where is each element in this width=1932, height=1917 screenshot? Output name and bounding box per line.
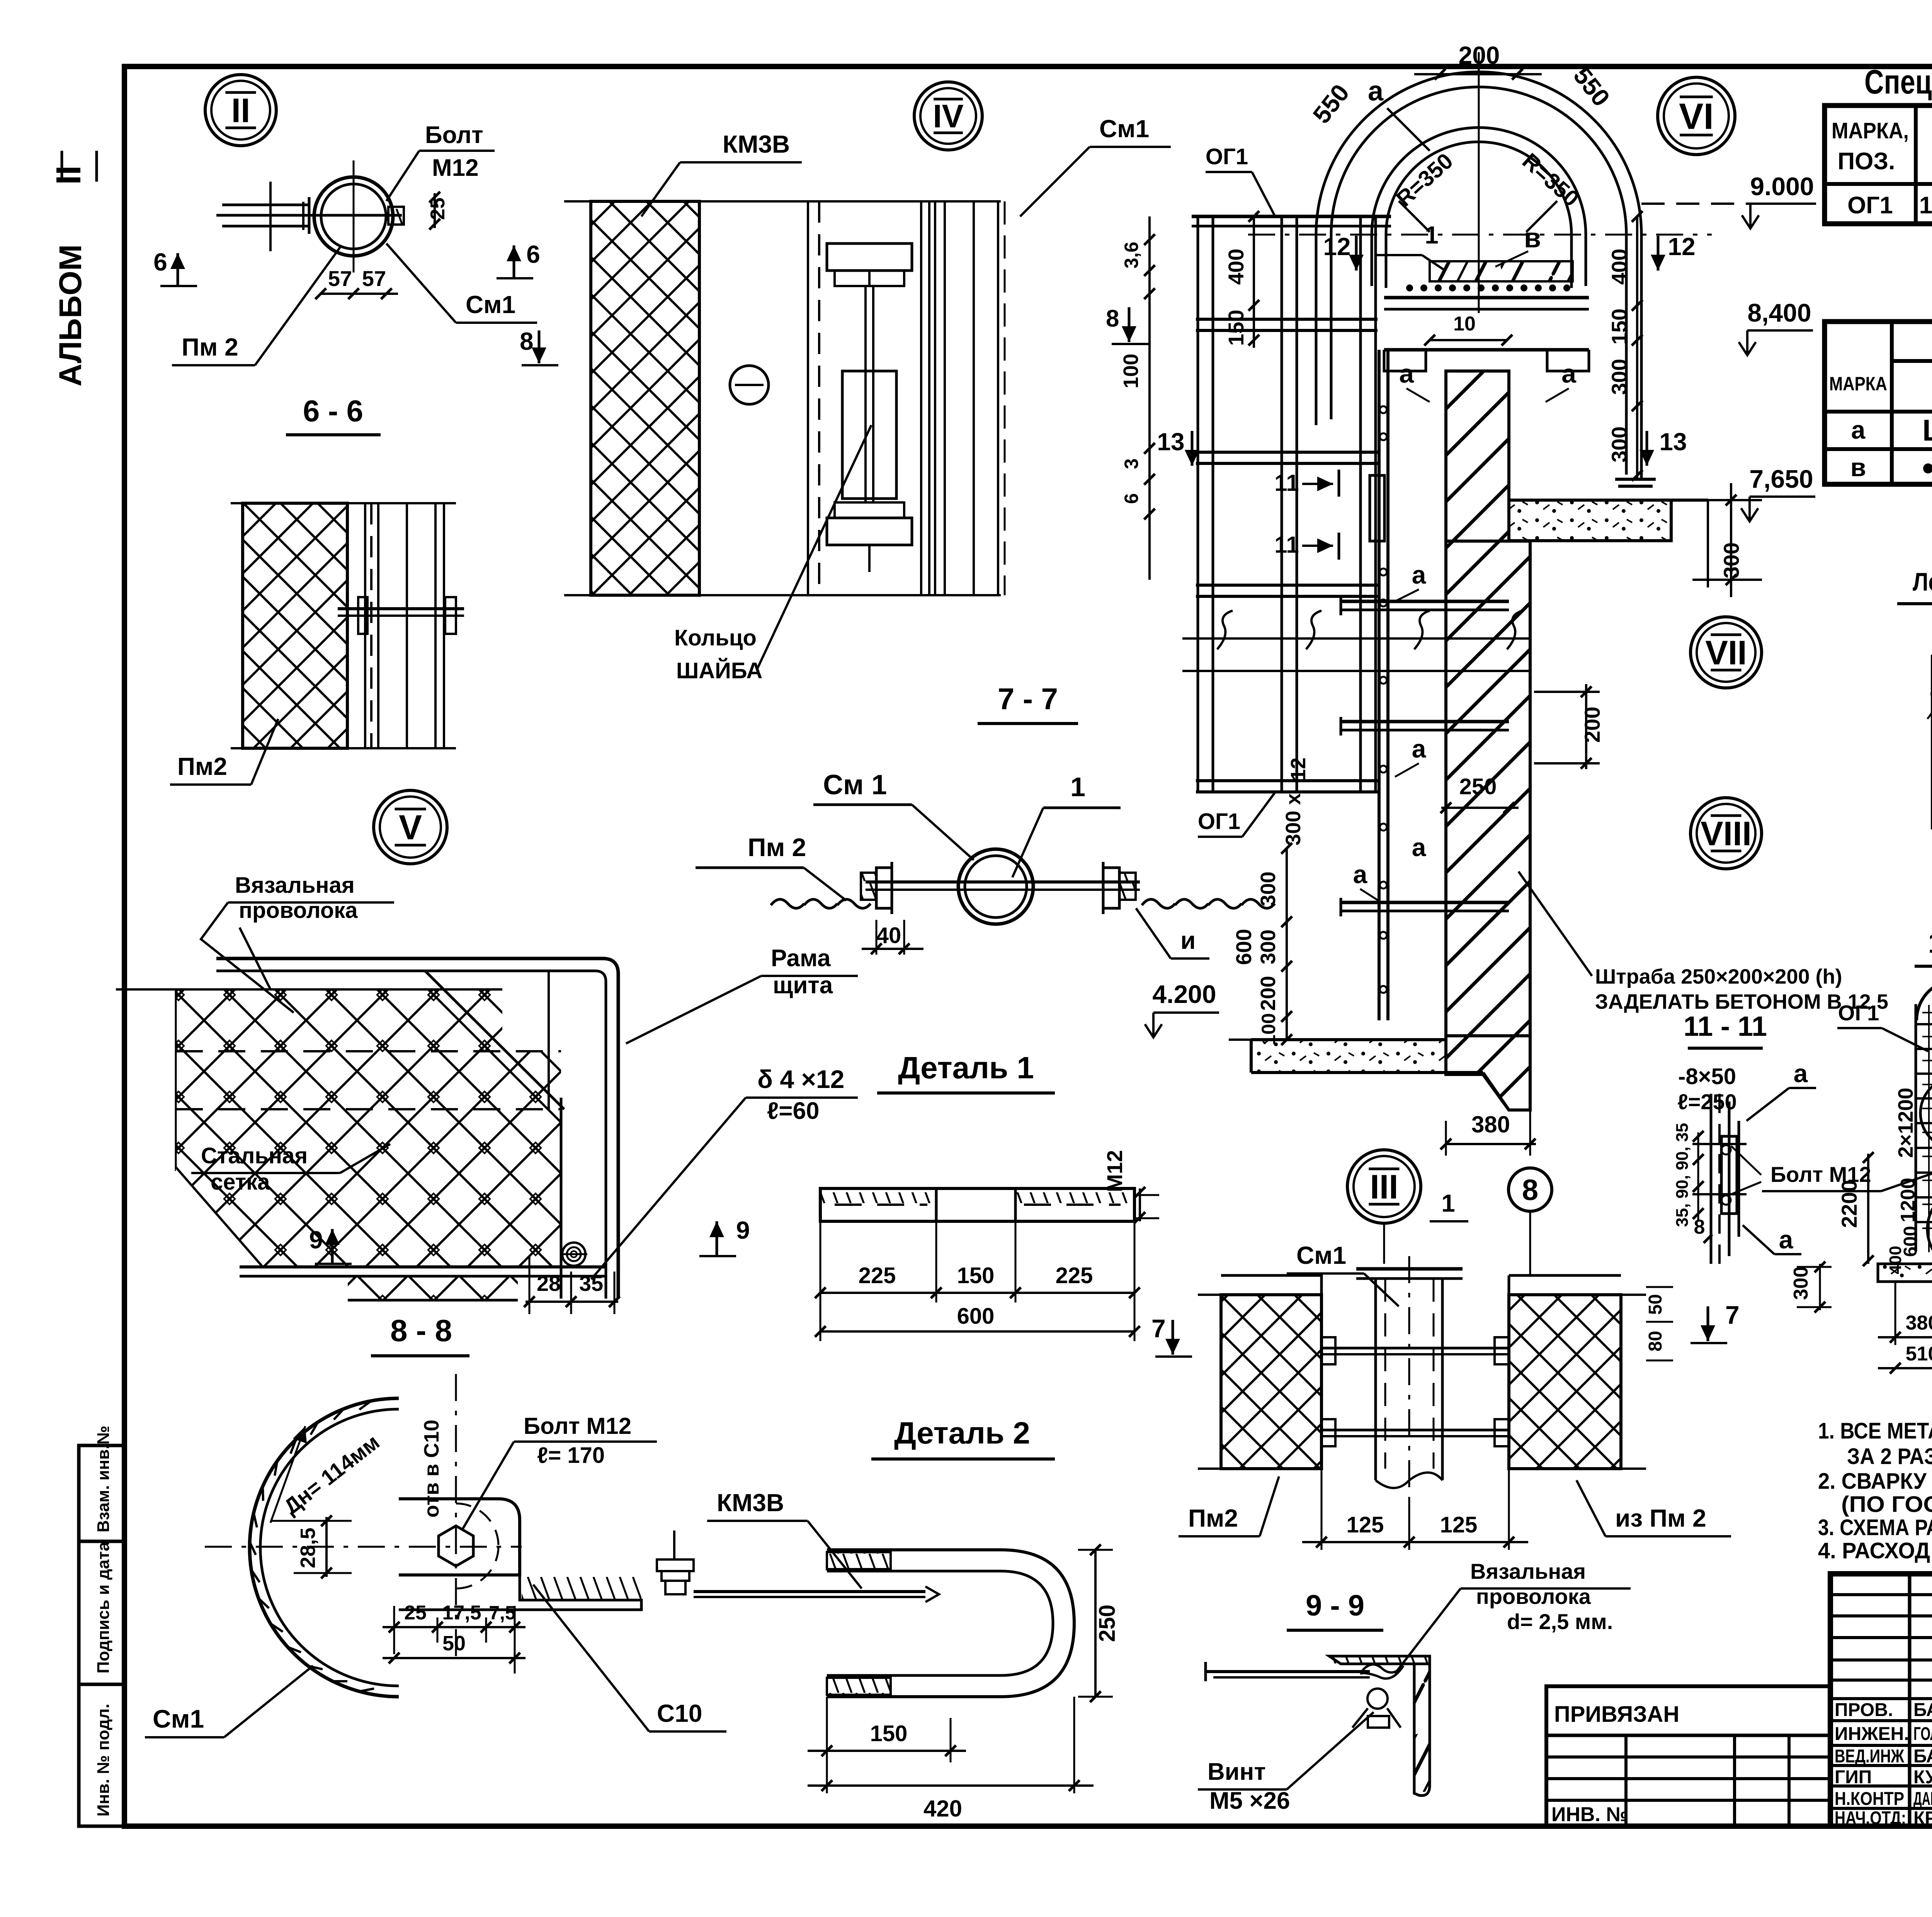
ladder stringer with holes xyxy=(1378,350,1381,1020)
svg-text:600: 600 xyxy=(1231,929,1256,965)
svg-text:1: 1 xyxy=(1070,772,1085,802)
svg-text:2200: 2200 xyxy=(1837,1180,1861,1228)
svg-text:VII: VII xyxy=(1705,633,1747,672)
svg-text:II: II xyxy=(231,91,250,129)
bolt at corner bottom xyxy=(562,1243,585,1266)
cage horizontal bands xyxy=(1196,318,1378,321)
break squiggles across cage and column xyxy=(1217,611,1233,649)
svg-text:КМ3В: КМ3В xyxy=(723,130,790,158)
III cross rods xyxy=(1321,1347,1509,1350)
frame of screen (rama schita) xyxy=(216,958,618,1299)
svg-text:12: 12 xyxy=(1287,758,1310,781)
arch centerlines xyxy=(1478,52,1480,313)
svg-text:225: 225 xyxy=(859,1263,896,1288)
svg-text:10 - 10: 10 - 10 xyxy=(1928,927,1932,959)
svg-text:Болт М12: Болт М12 xyxy=(524,1413,631,1439)
svg-text:ВЕД.ИНЖ: ВЕД.ИНЖ xyxy=(1835,1746,1904,1767)
svg-text:150: 150 xyxy=(870,1721,908,1746)
svg-text:300: 300 xyxy=(1257,872,1280,906)
detail IV marker xyxy=(914,82,982,150)
svg-text:и: и xyxy=(1180,926,1196,954)
svg-text:МАРКА: МАРКА xyxy=(1829,373,1887,395)
svg-text:а: а xyxy=(1412,734,1427,763)
svg-text:600: 600 xyxy=(957,1304,995,1329)
dim chain left of arch xyxy=(1253,216,1255,348)
svg-text:М12: М12 xyxy=(1102,1150,1127,1192)
bar dims xyxy=(820,1292,1134,1294)
lower-left dim chain 600/300/200/100 xyxy=(1286,848,1288,1040)
svg-text:7: 7 xyxy=(1151,1314,1166,1343)
svg-text:300: 300 xyxy=(1790,1267,1812,1300)
svg-text:ОГ1: ОГ1 xyxy=(1838,1001,1879,1025)
hex bolt xyxy=(439,1526,473,1566)
mesh border dashes xyxy=(116,988,502,991)
svg-text:δ 4 ×12: δ 4 ×12 xyxy=(757,1065,844,1093)
left margin stamp boxes xyxy=(79,1445,124,1826)
svg-text:-8×50: -8×50 xyxy=(1678,1064,1736,1089)
svg-text:380: 380 xyxy=(1471,1112,1510,1137)
bottom slab xyxy=(1878,1264,1932,1282)
svg-text:1: 1 xyxy=(1425,221,1439,249)
svg-text:VI: VI xyxy=(1679,96,1714,137)
svg-text:См1: См1 xyxy=(1099,115,1149,143)
svg-text:ПРИВЯЗАН: ПРИВЯЗАН xyxy=(1554,1702,1679,1727)
rim hatch ticks xyxy=(360,1689,374,1691)
svg-text:200: 200 xyxy=(1459,41,1500,69)
6-6 bolt xyxy=(338,607,464,610)
svg-text:150: 150 xyxy=(957,1263,995,1288)
central elevation: hoop guard arch xyxy=(1316,72,1641,479)
left clamp xyxy=(876,868,892,908)
svg-text:57: 57 xyxy=(362,266,386,291)
angle top plate with hatch xyxy=(1329,1656,1430,1664)
svg-text:9: 9 xyxy=(736,1216,750,1244)
washer bolt right xyxy=(657,1559,694,1571)
7-7 right dim chain 3,6 / 100 / 3 / 6 xyxy=(1148,216,1151,580)
svg-text:200: 200 xyxy=(1580,707,1604,742)
svg-text:См 1: См 1 xyxy=(823,770,887,800)
svg-text:150: 150 xyxy=(1224,310,1248,346)
svg-text:а: а xyxy=(1779,1225,1794,1254)
title block xyxy=(1830,1574,1932,1826)
top hoop arc xyxy=(1917,980,1932,1020)
svg-text:8 - 8: 8 - 8 xyxy=(390,1313,452,1348)
right concrete ledge xyxy=(1509,500,1671,541)
svg-text:35: 35 xyxy=(579,1271,603,1296)
break marks xyxy=(1927,686,1932,719)
III pipe with cap xyxy=(1383,1223,1385,1264)
svg-text:250: 250 xyxy=(1095,1605,1120,1642)
svg-text:28,5: 28,5 xyxy=(296,1527,320,1568)
detail II marker circle xyxy=(205,75,276,146)
svg-text:VIII: VIII xyxy=(1701,814,1752,853)
svg-text:10: 10 xyxy=(1453,313,1476,335)
ladder rails and rungs xyxy=(1915,1004,1917,1251)
svg-text:II: II xyxy=(49,165,88,185)
svg-text:Вязальная: Вязальная xyxy=(235,873,355,898)
svg-text:С10: С10 xyxy=(657,1699,702,1727)
svg-text:4.200: 4.200 xyxy=(1152,980,1216,1008)
svg-text:25: 25 xyxy=(404,1602,427,1624)
svg-text:Кольцо: Кольцо xyxy=(674,625,757,650)
svg-text:Спецификация элементов лестн: Спецификация элементов лестницы ЛП1 xyxy=(1864,63,1932,101)
svg-text:АЛЬБОМ: АЛЬБОМ xyxy=(53,244,88,386)
svg-text:НАЧ.ОТД:: НАЧ.ОТД: xyxy=(1835,1808,1906,1828)
svg-text:а: а xyxy=(1368,76,1384,107)
left guard cage verticals xyxy=(1197,216,1199,792)
ladder outer dim verticals xyxy=(1931,655,1932,829)
svg-text:а: а xyxy=(1851,415,1866,444)
svg-text:Болт М12: Болт М12 xyxy=(1770,1162,1871,1187)
svg-text:12: 12 xyxy=(1323,233,1350,260)
svg-text:57: 57 xyxy=(328,266,352,291)
III right mesh panel xyxy=(1509,1295,1621,1469)
7-7 right member vertical lines xyxy=(920,201,922,595)
svg-text:4. РАСХОД МАТЕРИАЛА НА ПОЗ: 4. РАСХОД МАТЕРИАЛА НА ПОЗ В : А-I-18 ГО… xyxy=(1818,1538,1932,1563)
section III marker xyxy=(1347,1150,1421,1223)
svg-text:Подпись и дата: Подпись и дата xyxy=(94,1542,113,1674)
V marker circle xyxy=(374,790,447,864)
svg-text:250: 250 xyxy=(1459,774,1497,799)
svg-text:8: 8 xyxy=(1522,1174,1538,1207)
svg-text:200: 200 xyxy=(1257,976,1280,1011)
svg-text:11: 11 xyxy=(1274,470,1299,496)
svg-text:510: 510 xyxy=(1906,1343,1932,1365)
privyazan block xyxy=(1546,1686,1830,1826)
svg-text:отв в С10: отв в С10 xyxy=(420,1420,443,1518)
rung section squares (11-11 cut) xyxy=(1370,475,1384,541)
svg-text:Винт: Винт xyxy=(1207,1759,1266,1785)
svg-text:Деталь 2: Деталь 2 xyxy=(894,1416,1030,1450)
svg-text:d= 2,5 мм.: d= 2,5 мм. xyxy=(1507,1609,1613,1634)
central concrete column (hatched) xyxy=(1446,371,1509,541)
cage bottom band xyxy=(1196,779,1378,782)
svg-text:8: 8 xyxy=(520,327,534,355)
wire twist xyxy=(1360,1664,1403,1679)
svg-text:6: 6 xyxy=(1121,493,1142,504)
svg-text:9 - 9: 9 - 9 xyxy=(1306,1589,1364,1622)
svg-text:а: а xyxy=(1561,359,1577,388)
svg-text:300: 300 xyxy=(1607,359,1631,395)
svg-text:Штраба 250×200×200 (h): Штраба 250×200×200 (h) xyxy=(1595,965,1842,988)
svg-text:400: 400 xyxy=(1224,249,1248,284)
svg-text:ИНВ. №: ИНВ. № xyxy=(1551,1803,1628,1826)
dims 25 17.5 7.5 50 xyxy=(393,1606,395,1654)
svg-text:ШАЙБА: ШАЙБА xyxy=(676,658,762,683)
svg-text:ГИП: ГИП xyxy=(1835,1767,1872,1788)
svg-text:КУЗНЕЦОВ: КУЗНЕЦОВ xyxy=(1913,1767,1932,1788)
svg-text:50: 50 xyxy=(442,1632,466,1655)
svg-text:из Пм 2: из Пм 2 xyxy=(1615,1504,1706,1532)
8-8 big pipe semicircle xyxy=(250,1398,399,1697)
svg-text:80: 80 xyxy=(1645,1331,1666,1351)
vedomost table xyxy=(1825,322,1932,484)
svg-text:Пм 2: Пм 2 xyxy=(182,333,238,361)
svg-text:МАРКА,: МАРКА, xyxy=(1832,118,1909,143)
svg-text:(ПО ГОСТ 9467-75) , КАТЕТ: (ПО ГОСТ 9467-75) , КАТЕТ ШВА 4 ММ. ТИП … xyxy=(1841,1492,1932,1517)
8-8 bracket plate xyxy=(399,1499,520,1575)
svg-text:L: L xyxy=(1922,413,1932,447)
section 7-7: wall strip xyxy=(591,201,699,595)
svg-text:а: а xyxy=(1412,833,1427,861)
inner arch R=350 xyxy=(1372,128,1586,286)
III left mesh panel xyxy=(1221,1295,1321,1469)
svg-text:См1: См1 xyxy=(153,1704,204,1733)
ledge right dims 300 xyxy=(1707,500,1709,587)
svg-text:3,6: 3,6 xyxy=(1121,242,1142,269)
angle vertical leg hatched xyxy=(1414,1664,1430,1796)
8-8 centerlines xyxy=(455,1374,457,1662)
svg-text:380: 380 xyxy=(1906,1312,1932,1334)
svg-text:Болт: Болт xyxy=(425,122,483,148)
stringer support angles xyxy=(1341,600,1509,603)
svg-text:М12: М12 xyxy=(432,155,479,181)
svg-text:7,650: 7,650 xyxy=(1749,465,1813,493)
svg-text:в: в xyxy=(1850,453,1866,482)
axis 8 circle xyxy=(1509,1168,1552,1211)
svg-text:Взам. инв.№: Взам. инв.№ xyxy=(94,1426,113,1532)
section 6-6: wall with insulation xyxy=(243,503,347,748)
svg-text:100: 100 xyxy=(1119,354,1143,388)
right clamp xyxy=(1102,862,1105,914)
svg-text:100: 100 xyxy=(1258,1013,1279,1045)
U-bolt shape xyxy=(827,1550,1074,1697)
svg-text:в: в xyxy=(1524,223,1541,254)
mesh corner cut (white) xyxy=(176,1167,263,1267)
svg-text:125: 125 xyxy=(1347,1512,1384,1537)
svg-text:7: 7 xyxy=(1725,1301,1740,1329)
svg-text:ПОЗ.: ПОЗ. xyxy=(1838,148,1895,175)
III dims 125 125 xyxy=(1321,1469,1323,1550)
mesh grid left xyxy=(1922,1012,1932,1013)
svg-text:ГОЛОВАНОВА: ГОЛОВАНОВА xyxy=(1913,1724,1932,1744)
svg-text:13: 13 xyxy=(1659,428,1687,456)
svg-text:М5 ×26: М5 ×26 xyxy=(1209,1788,1290,1814)
svg-text:Пм2: Пм2 xyxy=(177,752,227,780)
svg-text:125: 125 xyxy=(1440,1512,1478,1537)
svg-text:ИНЖЕН.: ИНЖЕН. xyxy=(1835,1724,1909,1744)
svg-text:Вязальная: Вязальная xyxy=(1470,1559,1586,1583)
11-11 drawing: plates and bolts xyxy=(1710,1094,1713,1264)
svg-text:ℓ=250: ℓ=250 xyxy=(1677,1090,1737,1114)
svg-text:28: 28 xyxy=(537,1271,561,1296)
roman circles VI VII VIII xyxy=(1658,77,1735,155)
svg-text:IV: IV xyxy=(933,98,963,134)
svg-text:КМ3В: КМ3В xyxy=(717,1489,784,1517)
svg-text:6: 6 xyxy=(153,248,167,276)
bottom floor slab xyxy=(1251,1040,1444,1073)
svg-text:V: V xyxy=(399,809,422,847)
svg-text:150: 150 xyxy=(1607,308,1631,344)
svg-text:6: 6 xyxy=(526,240,540,268)
svg-text:ЗА 2 РАЗА ПО ГРУНТОВКЕ ГФ-: ЗА 2 РАЗА ПО ГРУНТОВКЕ ГФ-021 ( ГОСТ 251… xyxy=(1847,1444,1932,1469)
svg-text:ОГ1: ОГ1 xyxy=(1198,809,1240,834)
svg-text:2. СВАРКУ ПРОИЗВОДИТЬ ПО Г: 2. СВАРКУ ПРОИЗВОДИТЬ ПО ГОСТ 5264-80 ЭЛ… xyxy=(1818,1469,1932,1494)
svg-text:а: а xyxy=(1399,359,1414,388)
svg-text:а: а xyxy=(1794,1059,1808,1088)
svg-text:400: 400 xyxy=(1886,1246,1905,1274)
svg-text:8,400: 8,400 xyxy=(1747,298,1811,327)
svg-text:ОГ1: ОГ1 xyxy=(1206,144,1248,169)
7-7 bolt column assembly xyxy=(807,201,809,595)
chains left and right xyxy=(771,899,804,908)
svg-text:8: 8 xyxy=(1106,305,1119,332)
dashed hole circle xyxy=(456,1503,498,1546)
7-7 screw circle xyxy=(730,366,769,404)
svg-text:35, 90, 90, 35: 35, 90, 90, 35 xyxy=(1673,1123,1692,1227)
svg-text:17,5: 17,5 xyxy=(442,1602,481,1624)
big overlap circles xyxy=(1920,1078,1932,1149)
top platform with rebar dots xyxy=(1430,261,1573,281)
dim chains right of arch xyxy=(1636,216,1638,479)
svg-text:См1: См1 xyxy=(1296,1241,1346,1269)
svg-text:50: 50 xyxy=(1645,1294,1666,1314)
svg-text:12: 12 xyxy=(1668,233,1695,260)
svg-text:КРАСАВИН: КРАСАВИН xyxy=(1913,1808,1932,1828)
svg-text:БАБИКОВА: БАБИКОВА xyxy=(1913,1700,1932,1720)
svg-text:III: III xyxy=(1370,1168,1398,1206)
svg-text:300: 300 xyxy=(1257,930,1280,964)
svg-text:420: 420 xyxy=(923,1796,962,1822)
detail 1: rod through pipe xyxy=(958,849,1033,924)
svg-text:7,5: 7,5 xyxy=(489,1602,516,1624)
svg-text:ПРОВ.: ПРОВ. xyxy=(1835,1700,1893,1720)
svg-text:9: 9 xyxy=(309,1226,323,1254)
cage top rail xyxy=(1192,215,1391,218)
svg-text:Стальная: Стальная xyxy=(201,1143,308,1168)
svg-text:а: а xyxy=(1353,860,1368,889)
svg-text:Инв. № подл.: Инв. № подл. xyxy=(94,1704,113,1817)
svg-text:2×1200: 2×1200 xyxy=(1894,1088,1917,1158)
svg-text:Н.КОНТР: Н.КОНТР xyxy=(1835,1789,1904,1809)
8-8 angle leg and channel xyxy=(399,1575,641,1610)
svg-text:8: 8 xyxy=(1694,1216,1705,1238)
KM3V tie rod xyxy=(694,1590,925,1593)
svg-text:1. ВСЕ МЕТАЛЛОКОНСТРУКЦИИ ОК: 1. ВСЕ МЕТАЛЛОКОНСТРУКЦИИ ОКРАСИТЬ МАСЛЯ… xyxy=(1818,1418,1932,1444)
svg-text:1: 1 xyxy=(1441,1189,1455,1217)
column lower part below break xyxy=(1446,1036,1530,1110)
svg-text:300 x: 300 x xyxy=(1282,793,1305,845)
bottom frame of mesh block xyxy=(240,1265,606,1268)
9-9 drawing: rod, angle, wire xyxy=(1206,1670,1370,1673)
svg-text:11 - 11: 11 - 11 xyxy=(1684,1011,1767,1042)
detail 2 dims xyxy=(1094,1550,1097,1697)
svg-text:См1: См1 xyxy=(466,291,515,318)
svg-text:300: 300 xyxy=(1607,426,1631,462)
svg-text:Пм 2: Пм 2 xyxy=(748,833,806,861)
svg-text:Деталь 1: Деталь 1 xyxy=(898,1050,1034,1085)
svg-text:9.000: 9.000 xyxy=(1750,172,1814,201)
svg-text:БАБИКОВА: БАБИКОВА xyxy=(1913,1746,1932,1767)
svg-text:Рама: Рама xyxy=(771,945,831,972)
svg-text:7 - 7: 7 - 7 xyxy=(998,682,1058,716)
svg-text:6 - 6: 6 - 6 xyxy=(303,394,363,428)
detail II: pipe clamp plan xyxy=(314,177,393,256)
svg-text:3. СХЕМА РАСПОЛОЖЕНИЯ ЛЕСТН: 3. СХЕМА РАСПОЛОЖЕНИЯ ЛЕСТНИЦЫ ЛП1 СМОТР… xyxy=(1818,1515,1932,1540)
svg-text:ℓ= 170: ℓ= 170 xyxy=(537,1443,605,1468)
inner frame diagonal xyxy=(425,971,564,1109)
svg-text:13: 13 xyxy=(1157,428,1184,456)
svg-text:1.450-3-3.1 6.1.0.1.0-05: 1.450-3-3.1 6.1.0.1.0-05 xyxy=(1919,192,1932,219)
mesh fill xyxy=(176,989,502,1051)
detail 1 bar with M12 ends xyxy=(820,1188,1134,1221)
svg-text:ℓ=60: ℓ=60 xyxy=(767,1098,819,1124)
spec table xyxy=(1825,106,1932,224)
svg-text:11: 11 xyxy=(1274,532,1299,558)
svg-text:3: 3 xyxy=(1121,458,1142,469)
svg-text:Пм2: Пм2 xyxy=(1188,1504,1238,1532)
svg-text:Лестница ЛП1: Лестница ЛП1 xyxy=(1913,567,1932,596)
svg-text:400: 400 xyxy=(1607,249,1631,284)
svg-text:ОГ1: ОГ1 xyxy=(1847,192,1893,219)
svg-text:а: а xyxy=(1412,560,1427,589)
svg-text:ДАНИЛЕВСКИЙ: ДАНИЛЕВСКИЙ xyxy=(1913,1788,1932,1809)
svg-text:225: 225 xyxy=(1056,1263,1093,1288)
